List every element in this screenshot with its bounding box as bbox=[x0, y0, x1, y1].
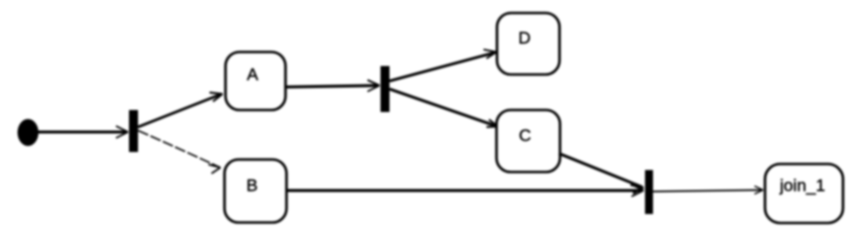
wire A to fork2 bbox=[286, 86, 379, 88]
action node C bbox=[497, 110, 561, 172]
svg-text:C: C bbox=[519, 126, 531, 145]
action node D bbox=[497, 13, 560, 75]
join bar bbox=[645, 170, 653, 214]
action node A bbox=[226, 52, 286, 110]
wire initial to fork1 bbox=[38, 131, 127, 134]
wire B to join bbox=[287, 189, 643, 192]
wire fork1 to A bbox=[138, 94, 222, 127]
svg-text:join_1: join_1 bbox=[779, 176, 825, 195]
action node join_1 bbox=[765, 164, 843, 223]
svg-text:A: A bbox=[247, 65, 259, 84]
wire fork1 to B (thin) bbox=[138, 131, 219, 168]
wire fork2 to C bbox=[390, 89, 497, 126]
initial node bbox=[18, 119, 39, 146]
fork bar 2 bbox=[381, 66, 390, 112]
action node B bbox=[225, 160, 287, 223]
svg-text:B: B bbox=[246, 176, 257, 195]
wire fork2 to D bbox=[390, 53, 496, 82]
wire C to join (thick) bbox=[559, 154, 642, 188]
fork bar 1 bbox=[129, 110, 138, 152]
wire join to join_1 bbox=[653, 190, 762, 192]
svg-text:D: D bbox=[518, 29, 530, 48]
